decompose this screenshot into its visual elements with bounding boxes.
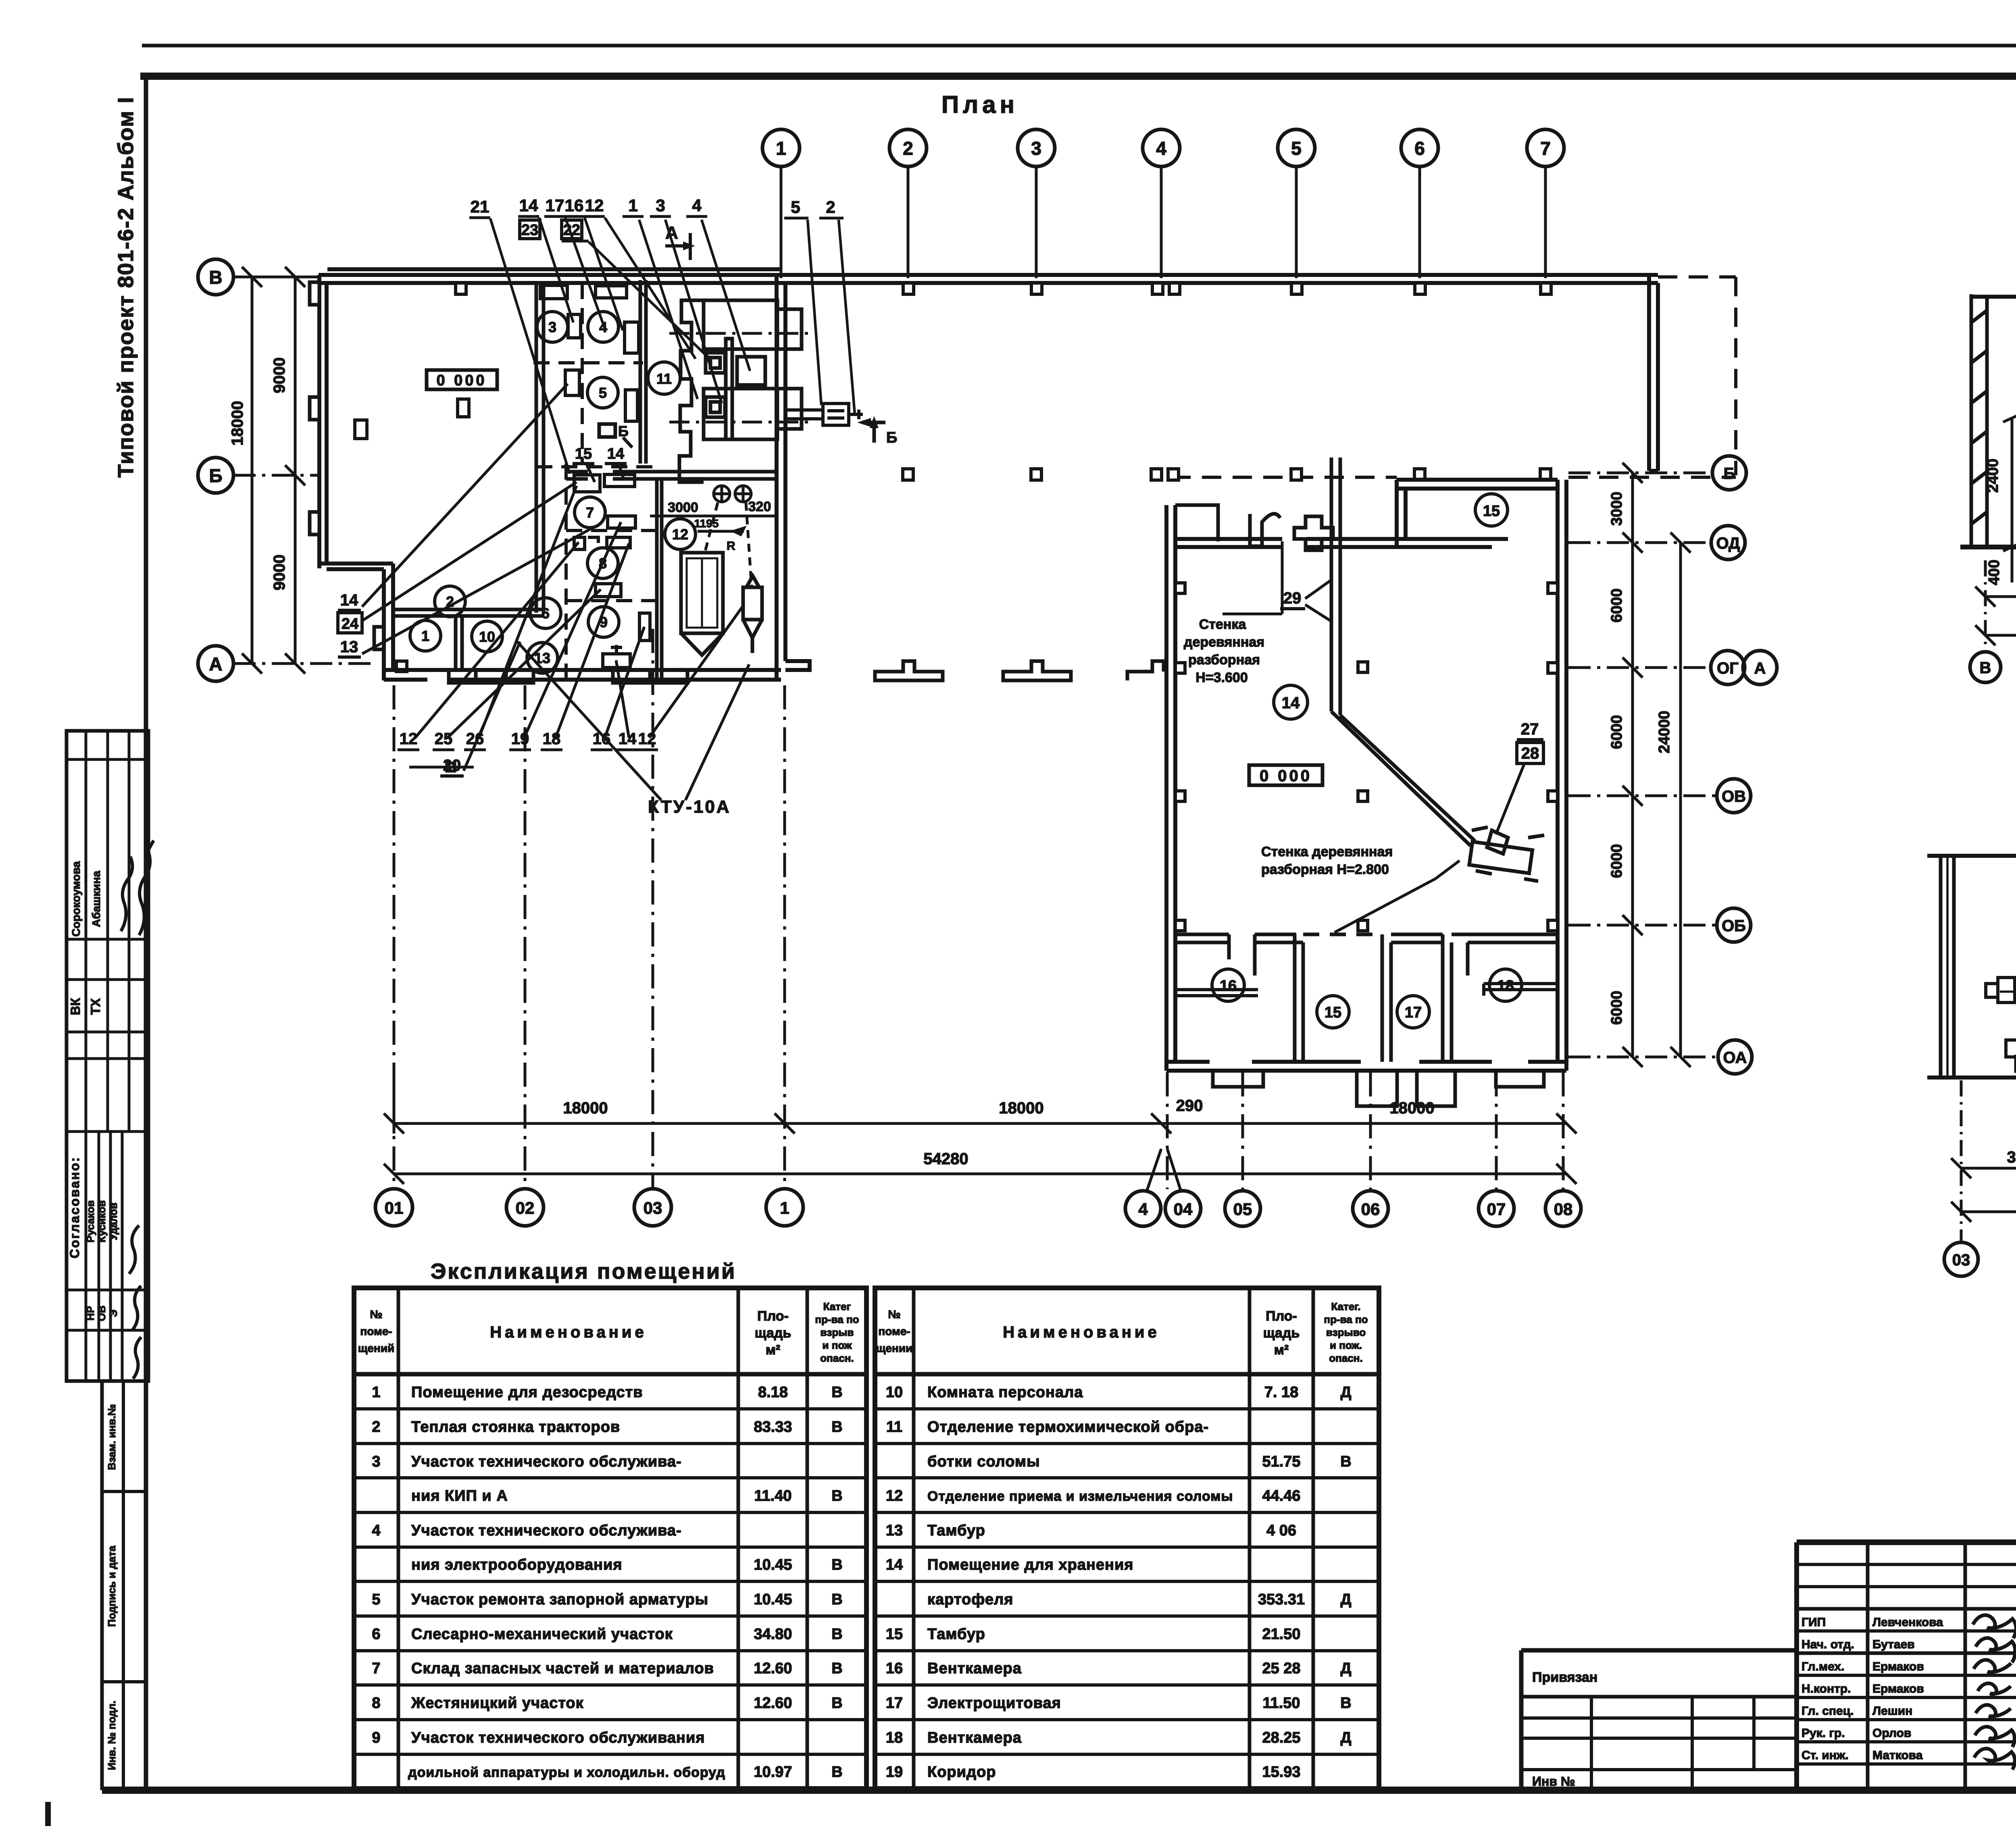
grid-1 wall (right wall of workshop block) bbox=[777, 275, 810, 680]
svg-text:15: 15 bbox=[1325, 1004, 1341, 1021]
svg-text:6000: 6000 bbox=[1608, 844, 1625, 878]
bottom dims AA bbox=[1975, 560, 2016, 650]
svg-text:2: 2 bbox=[903, 138, 913, 159]
dashed extension outline bbox=[1171, 277, 1736, 477]
svg-text:Участок технического обслужива: Участок технического обслужива- bbox=[411, 1453, 682, 1470]
svg-text:В: В bbox=[831, 1487, 842, 1504]
svg-text:1: 1 bbox=[776, 138, 786, 159]
svg-text:25 28: 25 28 bbox=[1262, 1660, 1300, 1677]
svg-text:24: 24 bbox=[342, 616, 358, 632]
outer border bbox=[1797, 1542, 2016, 1790]
right table grid bbox=[875, 1288, 1379, 1789]
svg-text:12: 12 bbox=[886, 1487, 903, 1504]
svg-text:ОА: ОА bbox=[1723, 1049, 1747, 1067]
svg-text:1195: 1195 bbox=[694, 517, 719, 530]
svg-text:14: 14 bbox=[340, 591, 358, 609]
svg-text:4: 4 bbox=[1138, 1200, 1148, 1219]
svg-text:Тамбур: Тамбур bbox=[927, 1522, 985, 1539]
svg-text:02: 02 bbox=[516, 1198, 535, 1217]
svg-text:Д: Д bbox=[1340, 1591, 1351, 1608]
svg-text:10: 10 bbox=[479, 628, 495, 645]
signature table horizontals bbox=[1797, 1563, 2016, 1566]
svg-text:17: 17 bbox=[1405, 1004, 1422, 1021]
svg-text:11: 11 bbox=[656, 370, 672, 387]
svg-text:320: 320 bbox=[748, 499, 771, 514]
svg-text:Участок технического обслужива: Участок технического обслужива- bbox=[411, 1522, 682, 1539]
svg-text:Кусиков: Кусиков bbox=[96, 1200, 108, 1243]
svg-text:18000: 18000 bbox=[563, 1099, 608, 1117]
svg-text:Нач. отд.: Нач. отд. bbox=[1801, 1638, 1854, 1651]
wall jog at room 1 bbox=[319, 564, 393, 680]
svg-text:Слесарно-механический участок: Слесарно-механический участок bbox=[411, 1626, 673, 1643]
left table header bbox=[358, 1300, 859, 1364]
svg-text:16: 16 bbox=[565, 196, 584, 215]
svg-text:353.31: 353.31 bbox=[1258, 1591, 1305, 1608]
conveyor room11 to hall bbox=[785, 404, 863, 425]
machines rooms 7/8/9 bbox=[574, 474, 650, 668]
svg-text:10.45: 10.45 bbox=[754, 1556, 792, 1573]
svg-text:В: В bbox=[831, 1591, 842, 1608]
middle hall right end wall bbox=[1649, 275, 1658, 471]
cross column storage top-left bbox=[1294, 516, 1333, 550]
svg-text:44.46: 44.46 bbox=[1262, 1487, 1300, 1504]
svg-text:Н.контр.: Н.контр. bbox=[1801, 1682, 1851, 1695]
svg-text:7: 7 bbox=[586, 504, 594, 521]
svg-text:83.33: 83.33 bbox=[754, 1419, 792, 1435]
svg-text:3: 3 bbox=[372, 1453, 380, 1470]
left table rows bbox=[372, 1384, 842, 1781]
svg-text:28: 28 bbox=[1521, 745, 1539, 762]
svg-text:Э: Э bbox=[107, 1310, 119, 1317]
svg-text:ботки соломы: ботки соломы bbox=[927, 1453, 1040, 1470]
room 14 circle bbox=[1274, 685, 1308, 719]
svg-text:В: В bbox=[1340, 1695, 1351, 1712]
svg-text:0 000: 0 000 bbox=[1260, 767, 1312, 785]
svg-text:54280: 54280 bbox=[923, 1150, 968, 1168]
svg-text:План: План bbox=[941, 91, 1018, 118]
svg-text:12: 12 bbox=[400, 730, 418, 748]
svg-text:25: 25 bbox=[435, 730, 453, 748]
svg-text:15: 15 bbox=[575, 445, 592, 462]
small dim marks near room1 bbox=[409, 763, 474, 771]
SECTION BB bbox=[1927, 777, 2016, 1276]
svg-text:Согласовано:: Согласовано: bbox=[67, 1156, 82, 1258]
svg-text:доильной аппаратуры и холодиль: доильной аппаратуры и холодильн. оборуд bbox=[408, 1765, 725, 1780]
svg-text:6: 6 bbox=[541, 605, 550, 622]
right dim chain 24000 bbox=[1670, 533, 1691, 1067]
door leaf room 1 bbox=[396, 661, 407, 672]
svg-text:Катег.: Катег. bbox=[1331, 1300, 1360, 1313]
svg-text:Ермаков: Ермаков bbox=[1872, 1660, 1924, 1673]
right grid circles bbox=[1711, 456, 1777, 1074]
stray mark bottom left bbox=[45, 1802, 51, 1826]
svg-text:16: 16 bbox=[1220, 978, 1237, 994]
svg-text:щадь: щадь bbox=[1263, 1325, 1300, 1341]
svg-text:05: 05 bbox=[1233, 1200, 1252, 1219]
svg-text:11.40: 11.40 bbox=[754, 1487, 792, 1504]
svg-text:5: 5 bbox=[791, 198, 800, 216]
svg-text:3000: 3000 bbox=[1608, 492, 1625, 526]
svg-text:ГИП: ГИП bbox=[1801, 1616, 1826, 1629]
svg-text:м²: м² bbox=[1274, 1342, 1289, 1358]
SECTION AA bbox=[1960, 192, 2016, 682]
svg-text:03: 03 bbox=[1952, 1251, 1970, 1269]
floor BB bbox=[1927, 1075, 2016, 1080]
svg-text:18000: 18000 bbox=[999, 1099, 1043, 1117]
bottom dims BB bbox=[1951, 1080, 2016, 1242]
svg-text:Отделение приема и измельчения: Отделение приема и измельчения соломы bbox=[927, 1489, 1233, 1504]
svg-text:В: В bbox=[1980, 659, 1991, 677]
machines rooms 3/4/5 bbox=[355, 285, 639, 439]
left dim chain 9000+9000 bbox=[285, 267, 305, 674]
svg-text:10.45: 10.45 bbox=[754, 1591, 792, 1608]
svg-text:поме-: поме- bbox=[360, 1325, 392, 1338]
svg-text:Ст. инж.: Ст. инж. bbox=[1801, 1749, 1849, 1762]
svg-text:Электрощитовая: Электрощитовая bbox=[927, 1695, 1061, 1712]
svg-text:пр-ва по: пр-ва по bbox=[815, 1313, 859, 1325]
svg-text:0 000: 0 000 bbox=[436, 372, 487, 389]
svg-text:ОГ: ОГ bbox=[1717, 659, 1739, 677]
svg-text:3000: 3000 bbox=[668, 500, 698, 515]
svg-text:Лешин: Лешин bbox=[1872, 1704, 1912, 1718]
svg-text:картофеля: картофеля bbox=[927, 1591, 1013, 1608]
svg-text:щений: щений bbox=[358, 1342, 395, 1354]
svg-text:№: № bbox=[370, 1308, 382, 1321]
anchors bbox=[705, 485, 752, 587]
svg-text:6: 6 bbox=[1414, 138, 1425, 159]
storage bottom rooms partition horizontal bbox=[1175, 934, 1558, 942]
svg-text:14: 14 bbox=[886, 1556, 903, 1573]
partition room2 right bbox=[391, 283, 544, 670]
svg-text:Венткамера: Венткамера bbox=[927, 1660, 1022, 1677]
left wall BB bbox=[1941, 856, 1954, 1078]
ceiling line bbox=[1971, 295, 2016, 299]
bottom label row 12 25 26 19 18 16 14 12 bbox=[400, 730, 656, 748]
svg-text:и пож: и пож bbox=[823, 1339, 852, 1351]
right table rows bbox=[886, 1384, 1352, 1781]
svg-text:18000: 18000 bbox=[229, 401, 246, 445]
svg-text:Б: Б bbox=[209, 465, 222, 486]
sidebar approval table outline bbox=[67, 731, 148, 1381]
storage top wall on OD bbox=[1175, 539, 1397, 547]
svg-text:Наименование: Наименование bbox=[490, 1323, 647, 1341]
svg-text:3000: 3000 bbox=[2007, 1148, 2016, 1166]
svg-text:13: 13 bbox=[340, 638, 358, 656]
svg-text:Бутаев: Бутаев bbox=[1872, 1638, 1915, 1651]
svg-text:Пло-: Пло- bbox=[757, 1308, 789, 1324]
svg-text:Стенка деревянная: Стенка деревянная bbox=[1261, 844, 1393, 859]
svg-text:А: А bbox=[209, 653, 222, 674]
svg-text:Инв №: Инв № bbox=[1532, 1774, 1575, 1789]
svg-text:5: 5 bbox=[1291, 138, 1302, 159]
svg-text:14: 14 bbox=[519, 196, 538, 215]
svg-text:Комната персонала: Комната персонала bbox=[927, 1384, 1083, 1401]
svg-text:1: 1 bbox=[780, 1198, 789, 1217]
svg-text:19: 19 bbox=[886, 1764, 903, 1781]
svg-text:Участок ремонта запорной армат: Участок ремонта запорной арматуры bbox=[411, 1591, 708, 1608]
svg-text:Привязан: Привязан bbox=[1532, 1670, 1597, 1685]
tank centerlines bbox=[2000, 899, 2016, 1072]
svg-text:Б: Б bbox=[1724, 465, 1735, 483]
svg-text:Теплая стоянка тракторов: Теплая стоянка тракторов bbox=[411, 1419, 620, 1435]
svg-text:15: 15 bbox=[1483, 503, 1500, 520]
svg-text:23: 23 bbox=[521, 222, 538, 239]
svg-text:27: 27 bbox=[1521, 720, 1539, 738]
svg-text:5: 5 bbox=[599, 385, 607, 401]
svg-text:29: 29 bbox=[1283, 589, 1302, 607]
left grid circles bbox=[198, 259, 233, 681]
svg-text:2: 2 bbox=[826, 198, 835, 216]
svg-text:В: В bbox=[831, 1764, 842, 1781]
svg-text:18: 18 bbox=[886, 1729, 903, 1746]
svg-text:03: 03 bbox=[644, 1198, 662, 1217]
pilasters left wall bbox=[310, 282, 384, 649]
svg-text:взрыв: взрыв bbox=[821, 1326, 854, 1338]
bottom dim line 54280 bbox=[384, 1164, 1577, 1184]
bottom wall of workshop block bbox=[384, 670, 781, 680]
svg-text:ОД: ОД bbox=[1716, 535, 1740, 552]
machine at diagonal end (27/28) bbox=[1469, 827, 1544, 881]
column footings on grid A bbox=[875, 661, 1164, 680]
svg-text:6: 6 bbox=[372, 1626, 380, 1643]
svg-text:ОВ: ОВ bbox=[96, 1306, 108, 1321]
svg-text:Стенка: Стенка bbox=[1199, 617, 1247, 632]
svg-text:9000: 9000 bbox=[271, 358, 288, 393]
circles 03 1 BB bbox=[1944, 1242, 1978, 1276]
svg-text:Катег: Катег bbox=[823, 1300, 851, 1313]
left column bbox=[1971, 294, 1987, 547]
porches storage bottom bbox=[1213, 1071, 1544, 1106]
svg-text:В: В bbox=[831, 1695, 842, 1712]
bottom frame heavy line bbox=[102, 1787, 2016, 1794]
svg-text:13: 13 bbox=[886, 1522, 903, 1539]
svg-text:7: 7 bbox=[372, 1660, 380, 1677]
svg-text:3: 3 bbox=[656, 196, 665, 215]
svg-text:Сорокоумова: Сорокоумова bbox=[70, 861, 82, 936]
left table grid bbox=[354, 1288, 866, 1789]
inner shelves rooms 16/18 bbox=[1175, 984, 1558, 996]
svg-text:№: № bbox=[888, 1308, 900, 1321]
svg-text:10.97: 10.97 bbox=[754, 1764, 792, 1781]
ceiling line BB bbox=[1927, 854, 2016, 858]
svg-text:Ермаков: Ермаков bbox=[1872, 1682, 1924, 1695]
svg-text:Русаков: Русаков bbox=[84, 1200, 96, 1243]
B flag in room 5 bbox=[599, 424, 615, 437]
columns on grid B line bbox=[903, 469, 1551, 480]
svg-text:Взам. инв.№: Взам. инв.№ bbox=[106, 1404, 118, 1470]
svg-text:А: А bbox=[1754, 659, 1766, 677]
svg-text:Удалов: Удалов bbox=[107, 1202, 119, 1240]
svg-text:щении: щении bbox=[876, 1342, 913, 1354]
EXPLICATION TABLE bbox=[354, 1259, 1379, 1789]
svg-text:Инв. № подл.: Инв. № подл. bbox=[106, 1701, 118, 1770]
bottom dim line 18000+18000+290+18000 bbox=[384, 1082, 1577, 1134]
left outer wall of workshop block bbox=[319, 275, 327, 568]
svg-text:15: 15 bbox=[886, 1626, 903, 1643]
svg-text:Тамбур: Тамбур bbox=[927, 1626, 985, 1643]
svg-text:В: В bbox=[831, 1384, 842, 1401]
entrance porches bottom bbox=[449, 670, 687, 683]
svg-text:7: 7 bbox=[1540, 138, 1551, 159]
svg-text:14: 14 bbox=[1282, 694, 1300, 712]
svg-text:4: 4 bbox=[692, 196, 702, 215]
sidebar table horizontals bbox=[67, 758, 148, 761]
svg-text:4 06: 4 06 bbox=[1266, 1522, 1296, 1539]
top label row bbox=[471, 196, 835, 216]
svg-text:12: 12 bbox=[585, 196, 604, 215]
svg-text:ния КИП и А: ния КИП и А bbox=[411, 1487, 508, 1504]
storage right wall bbox=[1558, 480, 1566, 1071]
0 000 mark workshop bbox=[427, 370, 497, 389]
svg-text:6000: 6000 bbox=[1608, 715, 1625, 749]
right dim chain 3000/6000x4 bbox=[1622, 463, 1643, 1067]
svg-text:6000: 6000 bbox=[1608, 589, 1625, 623]
svg-text:Коридор: Коридор bbox=[927, 1764, 996, 1781]
partitions rooms 3/4/5 bbox=[533, 280, 777, 680]
svg-text:Д: Д bbox=[1340, 1660, 1351, 1677]
svg-text:м²: м² bbox=[766, 1342, 780, 1358]
svg-text:Б: Б bbox=[618, 423, 629, 439]
top strip thin line bbox=[142, 44, 2016, 48]
storage inner pilasters bbox=[1175, 583, 1558, 931]
grid dash-dot verticals bbox=[394, 629, 1563, 1189]
svg-text:08: 08 bbox=[1554, 1200, 1573, 1219]
svg-text:поме-: поме- bbox=[878, 1325, 910, 1338]
svg-text:34.80: 34.80 bbox=[754, 1626, 792, 1643]
svg-text:17: 17 bbox=[546, 196, 564, 215]
svg-text:разборная: разборная bbox=[1188, 652, 1260, 668]
tank side fittings bbox=[1986, 978, 2016, 1057]
svg-text:Гл.мех.: Гл.мех. bbox=[1801, 1660, 1844, 1673]
top wall column marks bbox=[456, 283, 1551, 294]
svg-text:разборная Н=2.800: разборная Н=2.800 bbox=[1261, 862, 1389, 877]
svg-text:11.50: 11.50 bbox=[1263, 1695, 1300, 1712]
svg-text:04: 04 bbox=[1174, 1200, 1193, 1219]
svg-text:24000: 24000 bbox=[1656, 711, 1673, 753]
svg-text:8: 8 bbox=[372, 1695, 380, 1712]
svg-text:3: 3 bbox=[1031, 138, 1041, 159]
svg-text:Венткамера: Венткамера bbox=[927, 1729, 1022, 1746]
svg-text:21: 21 bbox=[471, 197, 489, 216]
svg-text:пр-ва по: пр-ва по bbox=[1324, 1313, 1368, 1325]
svg-text:14: 14 bbox=[607, 445, 624, 462]
sidebar table verticals bbox=[85, 731, 87, 1381]
svg-text:10: 10 bbox=[886, 1384, 903, 1401]
svg-text:Маткова: Маткова bbox=[1872, 1749, 1923, 1762]
lower sidebar strip bbox=[100, 1381, 104, 1790]
svg-text:Помещение для дезосредств: Помещение для дезосредств bbox=[411, 1384, 643, 1401]
svg-text:07: 07 bbox=[1487, 1200, 1506, 1219]
svg-text:18: 18 bbox=[1497, 978, 1514, 994]
svg-text:4: 4 bbox=[372, 1522, 380, 1539]
svg-text:5: 5 bbox=[372, 1591, 380, 1608]
top grid circles 1-7 bbox=[762, 129, 1564, 166]
svg-text:6000: 6000 bbox=[1608, 991, 1625, 1025]
bottom grid circles bbox=[375, 1189, 1581, 1226]
svg-text:Экспликация помещений: Экспликация помещений bbox=[431, 1259, 736, 1283]
svg-text:12.60: 12.60 bbox=[754, 1660, 792, 1677]
room 15 circle top bbox=[1475, 494, 1508, 526]
svg-text:ОВ: ОВ bbox=[1722, 788, 1746, 805]
svg-text:ния электрооборудования: ния электрооборудования bbox=[411, 1556, 623, 1573]
svg-text:Участок технического обслужива: Участок технического обслуживания bbox=[411, 1729, 705, 1746]
svg-text:9000: 9000 bbox=[271, 555, 288, 591]
svg-text:17: 17 bbox=[886, 1695, 903, 1712]
svg-text:01: 01 bbox=[385, 1198, 404, 1217]
svg-text:21.50: 21.50 bbox=[1262, 1626, 1300, 1643]
signature table texts bbox=[1801, 1616, 1943, 1762]
connectors for 4/04 circles bbox=[1147, 1149, 1181, 1190]
0 000 mark storage bbox=[1249, 765, 1322, 785]
svg-text:щадь: щадь bbox=[755, 1325, 791, 1341]
interior tall wall + diagonal bbox=[1331, 458, 1475, 846]
svg-text:Рук. гр.: Рук. гр. bbox=[1801, 1727, 1845, 1740]
ground line bbox=[1960, 545, 2016, 549]
storage top-left vestibule stubs bbox=[1175, 505, 1280, 546]
svg-text:Помещение для хранения: Помещение для хранения bbox=[927, 1556, 1134, 1573]
svg-text:ВК: ВК bbox=[68, 998, 83, 1015]
svg-text:1: 1 bbox=[421, 628, 429, 644]
svg-text:Абашкина: Абашкина bbox=[90, 871, 102, 927]
svg-text:7. 18: 7. 18 bbox=[1264, 1384, 1299, 1401]
TITLE BLOCK bbox=[1521, 1542, 2016, 1820]
svg-text:Н=3.600: Н=3.600 bbox=[1195, 670, 1248, 685]
svg-text:2400: 2400 bbox=[1985, 459, 2001, 493]
left frame border bbox=[144, 75, 148, 1792]
wood wall text H=2.800 bbox=[1261, 844, 1393, 877]
svg-text:В: В bbox=[831, 1419, 842, 1435]
B section cut mark bbox=[862, 422, 885, 443]
svg-text:опасн.: опасн. bbox=[820, 1352, 854, 1364]
svg-text:4: 4 bbox=[1156, 138, 1166, 159]
svg-text:Левченкова: Левченкова bbox=[1872, 1616, 1943, 1629]
svg-text:Типовой проект 801-6-2 Альбом: Типовой проект 801-6-2 Альбом I bbox=[114, 96, 138, 478]
svg-text:8.18: 8.18 bbox=[758, 1384, 788, 1401]
svg-text:В: В bbox=[831, 1626, 842, 1643]
vestibule room 15 top bbox=[1397, 480, 1558, 547]
sidebar signatures squiggles bbox=[121, 857, 132, 931]
top outer wall bbox=[319, 269, 1658, 283]
svg-text:Наименование: Наименование bbox=[1003, 1323, 1160, 1341]
wood wall text H=3.600 bbox=[1184, 617, 1264, 685]
top strip heavy line bbox=[140, 73, 2016, 80]
svg-text:В: В bbox=[831, 1660, 842, 1677]
svg-text:и пож.: и пож. bbox=[1330, 1339, 1362, 1351]
left grid horizontal lines bbox=[233, 277, 371, 664]
room circles bottom storage bbox=[1212, 969, 1522, 1028]
svg-text:В: В bbox=[831, 1556, 842, 1573]
svg-text:Гл. спец.: Гл. спец. bbox=[1801, 1704, 1854, 1718]
svg-text:Жестяницкий участок: Жестяницкий участок bbox=[411, 1695, 584, 1712]
SIDEBAR bbox=[67, 96, 154, 1790]
room circles workshop bbox=[410, 312, 696, 673]
svg-text:Б: Б bbox=[886, 429, 897, 446]
svg-text:Склад запасных частей и матер: Склад запасных частей и материалов bbox=[411, 1660, 714, 1677]
svg-text:В: В bbox=[209, 267, 222, 288]
svg-text:ТХ: ТХ bbox=[88, 998, 103, 1015]
circles В Б bbox=[1970, 652, 2001, 682]
svg-text:16: 16 bbox=[886, 1660, 903, 1677]
svg-text:51.75: 51.75 bbox=[1262, 1453, 1300, 1470]
signatures cursive bbox=[1973, 1615, 2016, 1770]
svg-text:400: 400 bbox=[1986, 560, 2003, 585]
svg-text:Подпись и дата: Подпись и дата bbox=[106, 1546, 118, 1627]
storage left wall bbox=[1166, 505, 1175, 1071]
svg-text:06: 06 bbox=[1361, 1200, 1380, 1219]
svg-text:Орлов: Орлов bbox=[1872, 1727, 1911, 1740]
svg-text:1: 1 bbox=[628, 196, 637, 215]
svg-text:R: R bbox=[727, 539, 735, 553]
